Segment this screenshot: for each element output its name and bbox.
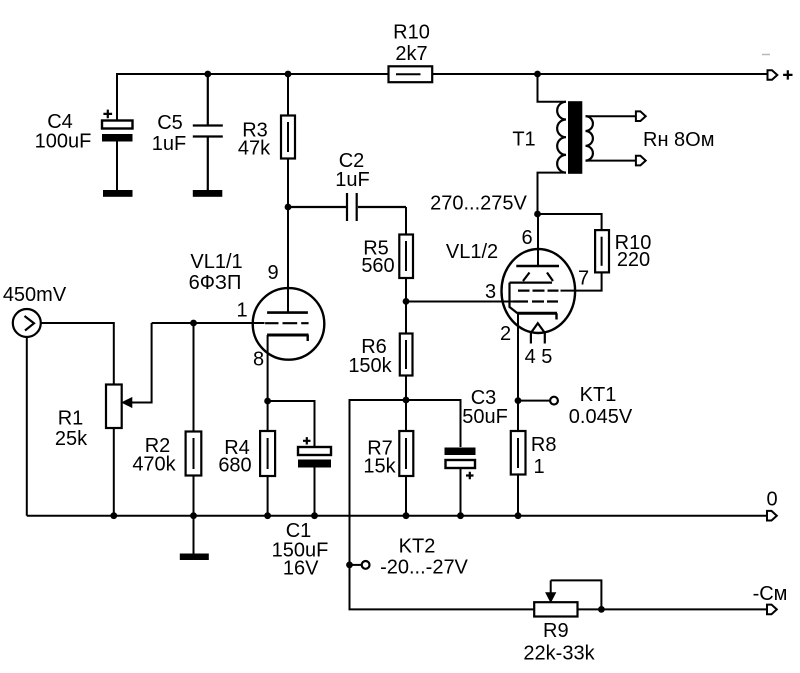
artifact dash: [762, 54, 770, 56]
capacitor C4: [102, 110, 133, 190]
svg-text:6: 6: [521, 227, 532, 249]
svg-text:0.045V: 0.045V: [569, 406, 633, 428]
node R5-R6: [403, 298, 410, 305]
svg-text:8: 8: [253, 349, 264, 371]
svg-text:470k: 470k: [132, 454, 176, 476]
source 450mV: [13, 309, 41, 337]
terminal KT1: [518, 397, 558, 405]
svg-text:VL1/1: VL1/1: [190, 251, 242, 273]
node top T1: [534, 71, 541, 78]
T1 primary winding: [557, 102, 566, 173]
svg-text:16V: 16V: [283, 558, 319, 580]
wire C2 to R5: [405, 207, 407, 235]
wire bias rail: [350, 400, 461, 565]
svg-text:150k: 150k: [348, 355, 392, 377]
VL1/2 control grid: [513, 300, 558, 302]
transformer T1 primary wires: [538, 74, 567, 214]
terminal 0 output: [767, 511, 777, 521]
wire cathode to C1: [268, 401, 315, 447]
svg-text:450mV: 450mV: [3, 284, 67, 306]
node R2 bus: [190, 512, 197, 519]
svg-text:1: 1: [236, 299, 247, 321]
resistor R10 220: [561, 230, 610, 291]
svg-text:220: 220: [617, 249, 650, 271]
svg-text:7: 7: [578, 268, 589, 290]
wire wiper to grid: [152, 322, 265, 324]
svg-text:100uF: 100uF: [35, 131, 92, 153]
R1 wiper: [122, 323, 151, 407]
svg-text:25k: 25k: [55, 428, 88, 450]
potentiometer R1: [106, 385, 122, 516]
node KT1: [515, 397, 522, 404]
potentiometer R9: [534, 602, 577, 616]
wire top rail right: [432, 73, 767, 75]
node bias: [403, 397, 410, 404]
ground C5: [193, 190, 223, 197]
svg-text:R9: R9: [543, 620, 569, 642]
VL1/1 grid: [265, 322, 309, 324]
svg-text:50uF: 50uF: [462, 406, 508, 428]
terminal speaker top: [636, 111, 646, 121]
node bus R7: [403, 512, 410, 519]
resistor R3: [281, 74, 295, 207]
svg-text:VL1/2: VL1/2: [446, 241, 498, 263]
svg-text:680: 680: [218, 455, 251, 477]
resistor R10 top: [389, 66, 433, 82]
capacitor C5: [193, 74, 223, 190]
svg-text:22k-33k: 22k-33k: [523, 643, 595, 665]
white patch left: [41, 451, 91, 492]
node bus C1: [311, 512, 318, 519]
wire top rail left: [117, 74, 389, 121]
VL1/1 cathode: [267, 335, 309, 401]
svg-text:1uF: 1uF: [152, 133, 186, 155]
resistor R2: [186, 323, 202, 554]
svg-text:1: 1: [533, 456, 544, 478]
svg-text:R8: R8: [531, 434, 557, 456]
svg-text:Rн 8Ом: Rн 8Ом: [643, 129, 714, 151]
node KT2: [346, 562, 353, 569]
ground R2: [180, 554, 209, 561]
VL1/2 screen grid: [518, 290, 559, 292]
svg-text:R10: R10: [393, 22, 430, 44]
svg-text:2k7: 2k7: [395, 43, 427, 65]
svg-text:560: 560: [361, 255, 394, 277]
svg-text:-20...-27V: -20...-27V: [380, 557, 468, 579]
tube VL1/1 envelope: [253, 288, 325, 360]
svg-text:6ФЗП: 6ФЗП: [189, 272, 242, 294]
node cathode VL1/1: [264, 398, 271, 405]
VL1/2 anode: [516, 265, 559, 268]
svg-text:KT2: KT2: [399, 536, 436, 558]
svg-text:2: 2: [500, 323, 511, 345]
VL1/2 beam plates: [510, 273, 554, 314]
resistor R7: [399, 400, 413, 516]
VL1/2 anode lead pin 6: [537, 214, 539, 266]
T1 secondary bottom lead: [586, 160, 636, 162]
bus 0V: [27, 515, 767, 517]
svg-text:47k: 47k: [238, 138, 271, 160]
T1 secondary winding: [586, 116, 593, 160]
node R3-C2: [285, 204, 292, 211]
node top C5: [204, 71, 211, 78]
resistor R6: [400, 302, 413, 401]
VL1/2 heater: [531, 323, 545, 343]
node bus R1: [110, 512, 117, 519]
svg-text:3: 3: [485, 281, 496, 303]
terminal KT2: [350, 561, 370, 569]
terminal + output: [768, 70, 778, 80]
VL1/1 anode: [267, 311, 308, 314]
svg-text:T1: T1: [512, 129, 535, 151]
wire KT2 to R9: [350, 565, 535, 610]
wire R9 to -Cm: [578, 608, 767, 610]
terminal -Cm output: [767, 605, 777, 615]
node R9: [598, 606, 605, 613]
VL1/1 anode lead pin 9: [287, 207, 289, 312]
svg-text:270...275V: 270...275V: [430, 193, 527, 215]
ground C4: [103, 190, 133, 197]
label +: [783, 70, 792, 79]
capacitor C3: [445, 448, 476, 516]
wire grid VL1/2: [406, 301, 513, 303]
wire anode node to R10: [538, 214, 602, 230]
node bus R4: [264, 512, 271, 519]
node grid VL1/1: [190, 320, 197, 327]
svg-text:-Cм: -Cм: [753, 583, 788, 605]
svg-text:9: 9: [267, 262, 278, 284]
resistor R8: [511, 401, 526, 516]
wire source to R1: [41, 323, 114, 385]
R9 wiper: [546, 580, 602, 609]
capacitor C2: [288, 193, 406, 221]
T1 core: [568, 101, 582, 174]
svg-text:R1: R1: [58, 408, 84, 430]
tube VL1/2 envelope: [502, 249, 576, 333]
T1 secondary top lead: [586, 115, 636, 117]
node bus C3: [457, 512, 464, 519]
node top R3: [285, 71, 292, 78]
svg-text:0: 0: [766, 489, 777, 511]
capacitor C1: [298, 437, 331, 516]
node anode VL1/2: [534, 211, 541, 218]
resistor R4: [260, 401, 275, 516]
terminal speaker bottom: [636, 156, 646, 166]
white patch top: [322, 24, 370, 56]
VL1/2 cathode: [518, 313, 558, 400]
resistor R5: [399, 235, 413, 302]
svg-text:1uF: 1uF: [335, 169, 369, 191]
node bus R8: [515, 512, 522, 519]
svg-text:KT1: KT1: [580, 384, 617, 406]
svg-text:4 5: 4 5: [525, 346, 553, 368]
wire source down: [26, 337, 28, 516]
svg-text:15k: 15k: [363, 456, 396, 478]
svg-text:C5: C5: [157, 112, 183, 134]
